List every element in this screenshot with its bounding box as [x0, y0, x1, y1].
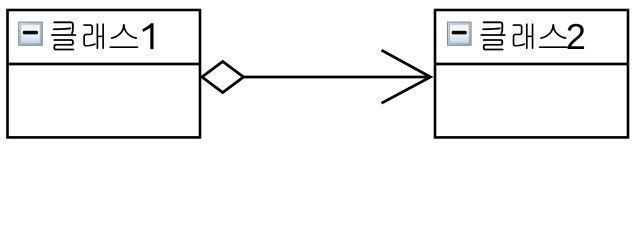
title text 클래스2 [480, 21, 584, 50]
title divider of 클래스1 [8, 63, 201, 66]
title divider of 클래스2 [435, 63, 628, 66]
class box 클래스2 [435, 10, 628, 137]
open arrowhead [382, 50, 431, 103]
wire aggregation line [244, 76, 431, 79]
aggregation diamond [202, 62, 244, 93]
title text 클래스1 [51, 21, 153, 50]
collapse icon box1 [19, 22, 43, 45]
class box 클래스1 [8, 10, 201, 137]
collapse icon box2 [448, 22, 472, 45]
